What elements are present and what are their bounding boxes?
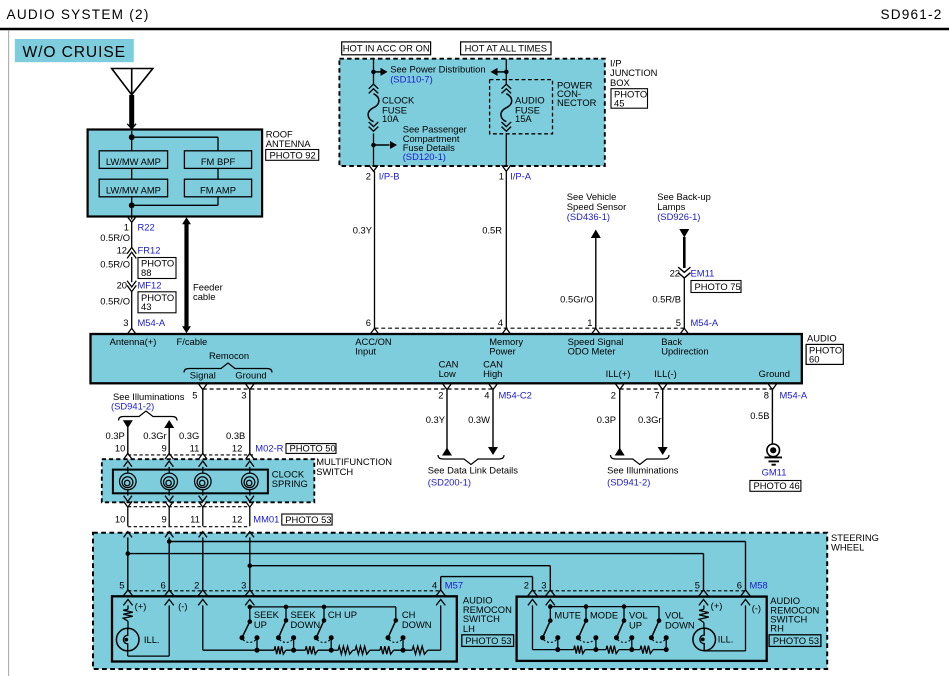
svg-text:0.5B: 0.5B — [750, 410, 769, 421]
svg-text:43: 43 — [141, 301, 151, 312]
label See Data Link Details — [428, 464, 518, 487]
svg-text:AUDIO SYSTEM (2): AUDIO SYSTEM (2) — [7, 7, 150, 22]
arrow to power distribution (left) — [374, 68, 388, 76]
roof antenna unit box — [88, 130, 263, 217]
svg-text:R22: R22 — [138, 222, 155, 233]
svg-text:LW/MW AMP: LW/MW AMP — [106, 184, 161, 195]
svg-text:PHOTO 92: PHOTO 92 — [270, 149, 316, 160]
clock spring coil 3 — [195, 473, 212, 490]
svg-text:RH: RH — [770, 622, 784, 633]
svg-text:ANTENNA: ANTENNA — [266, 138, 312, 149]
wire 0.5R/B to audio pin 5 — [652, 278, 684, 328]
switch MODE — [576, 604, 599, 652]
switch SEEK DOWN — [276, 605, 296, 653]
FM BPF block — [184, 151, 251, 169]
resistor RH illumination — [699, 605, 709, 622]
wire LH pin 2 to resistor rail — [203, 605, 257, 650]
svg-text:10: 10 — [115, 443, 125, 454]
svg-text:7: 7 — [654, 390, 659, 401]
connector M02-R dashed — [128, 454, 253, 456]
resistor chain LH 1 — [257, 646, 286, 654]
wire ILL- into wheel — [168, 537, 170, 589]
wire through clock spring 1 — [124, 461, 132, 507]
wire LH pin 4 riser — [440, 605, 442, 650]
PHOTO 46 box — [750, 480, 801, 491]
svg-text:M58: M58 — [750, 580, 768, 591]
label CAN High — [483, 358, 503, 379]
label See Vehicle Speed Sensor — [567, 191, 626, 222]
brace illuminations (right) — [611, 455, 670, 465]
label (+) LH — [135, 600, 147, 611]
wire bulb RH to (-) — [704, 649, 745, 652]
svg-text:LH: LH — [463, 623, 475, 634]
label Feeder cable — [193, 281, 223, 302]
switch VOL DOWN — [649, 607, 669, 653]
feeder cable — [182, 217, 191, 333]
wire LW/MW amp chain — [132, 168, 218, 179]
audio pin 5 (signal) — [192, 383, 207, 400]
svg-text:0.3Y: 0.3Y — [426, 414, 446, 425]
steering entry chevron 4 — [246, 532, 254, 538]
label Signal — [190, 370, 216, 381]
svg-text:0.5R: 0.5R — [482, 224, 502, 235]
label VOL DOWN — [665, 610, 695, 631]
svg-text:8: 8 — [764, 390, 769, 401]
svg-text:3: 3 — [123, 317, 128, 328]
wire through clock spring 2 — [165, 461, 173, 507]
left trim line — [8, 30, 10, 676]
arrow to power distribution (right) — [491, 68, 507, 76]
connector MM01 dashed top — [128, 506, 250, 508]
svg-text:(SD436-1): (SD436-1) — [567, 211, 610, 222]
steering wheel box — [93, 533, 827, 669]
label (+) RH — [711, 600, 723, 611]
svg-text:M57: M57 — [445, 580, 463, 591]
wire amp outputs to junction — [132, 197, 218, 217]
M02-R pin 10 — [115, 443, 132, 459]
node: power distribution junction (left) — [371, 70, 376, 75]
LH pin 4 — [432, 580, 445, 606]
LW/MW AMP block (upper) — [99, 151, 167, 169]
wire RH pin 3 to switch rail — [549, 605, 551, 606]
svg-text:M02-R: M02-R — [255, 443, 283, 454]
label F/cable — [177, 336, 208, 347]
svg-text:0.5R/O: 0.5R/O — [100, 232, 130, 243]
svg-text:UP: UP — [254, 619, 267, 630]
audio pin 2 (CAN low) — [438, 383, 451, 400]
brace illuminations (left) — [119, 411, 178, 421]
svg-text:See Data Link Details: See Data Link Details — [428, 464, 518, 475]
M02-R pin 11 — [190, 443, 207, 459]
label Remocon + brace — [184, 350, 272, 373]
label M58 — [750, 580, 768, 591]
fuse AUDIO FUSE 15A — [501, 84, 512, 131]
svg-text:6: 6 — [160, 580, 165, 591]
switch CH UP — [314, 605, 334, 653]
svg-text:DOWN: DOWN — [665, 619, 695, 630]
wire LH pin 6 down — [168, 605, 170, 656]
svg-text:Updirection: Updirection — [661, 346, 708, 357]
audio pin 3 M54-A — [123, 317, 166, 335]
LH pin 2 — [194, 580, 207, 606]
label MULTIFUNCTION SWITCH — [316, 456, 392, 477]
wire 0.5R/O (2) — [100, 257, 131, 282]
wire RH pin 2 to resistor rail — [533, 605, 558, 649]
connector pin 1 I/P-A — [499, 165, 532, 181]
wire bulb LH to (-) — [128, 650, 170, 656]
svg-text:SD961-2: SD961-2 — [880, 7, 942, 22]
label Antenna(+) — [110, 336, 157, 347]
svg-text:M54-A: M54-A — [691, 317, 719, 328]
clock spring box — [113, 470, 268, 494]
antenna symbol — [112, 69, 153, 96]
svg-text:MM01: MM01 — [253, 514, 279, 525]
label MODE — [590, 610, 618, 621]
svg-text:PHOTO 50: PHOTO 50 — [290, 443, 336, 454]
PHOTO 53 box (RH) — [769, 635, 821, 647]
svg-text:HOT IN ACC OR ON: HOT IN ACC OR ON — [343, 43, 430, 54]
MM01 pin 11 — [190, 507, 203, 526]
svg-text:LW/MW AMP: LW/MW AMP — [106, 156, 161, 167]
label Speed Signal ODO Meter — [568, 336, 624, 356]
svg-text:0.3Y: 0.3Y — [353, 224, 373, 235]
PHOTO 50 box — [286, 443, 336, 454]
wire antenna junction to FM branch — [132, 131, 218, 151]
steering entry chevron 3 — [199, 532, 207, 538]
PHOTO 53 box (LH) — [462, 635, 514, 647]
wire ground to RH pin 3 — [250, 566, 551, 590]
label CH DOWN — [402, 609, 432, 630]
resistor chain LH 3 — [318, 646, 353, 654]
svg-text:(SD110-7): (SD110-7) — [390, 74, 433, 85]
label (-) RH — [752, 602, 761, 613]
svg-text:Signal: Signal — [190, 370, 216, 381]
wire 0.3B ground — [226, 390, 250, 454]
svg-text:ILL.: ILL. — [144, 634, 160, 645]
svg-text:4: 4 — [484, 390, 489, 401]
clock spring coil 2 — [161, 473, 178, 490]
PHOTO 60 box — [806, 344, 843, 364]
wire ILL+ to RH pin 5 — [128, 554, 704, 590]
label AUDIO FUSE 15A — [515, 95, 545, 125]
svg-text:60: 60 — [809, 354, 819, 365]
switch MUTE — [540, 604, 560, 652]
svg-text:Remocon: Remocon — [209, 350, 249, 361]
bulb ILL LH — [116, 621, 159, 651]
svg-text:11: 11 — [190, 514, 200, 525]
svg-text:M54-A: M54-A — [138, 317, 166, 328]
wire through clock spring 4 — [246, 461, 254, 507]
MM01 pin 10 — [115, 507, 128, 526]
connector M58 dashed — [533, 590, 746, 592]
svg-text:MODE: MODE — [590, 610, 618, 621]
svg-text:(-): (-) — [752, 602, 761, 613]
label See Passenger Compartment Fuse Details — [403, 123, 467, 162]
PHOTO 45 box — [611, 88, 648, 108]
label See Illuminations (left) — [111, 391, 185, 412]
svg-text:SPRING: SPRING — [272, 478, 308, 489]
label STEERING WHEEL — [831, 532, 879, 553]
svg-text:(SD941-2): (SD941-2) — [607, 477, 650, 488]
wire 0.3P (left) — [106, 420, 133, 453]
svg-text:GM11: GM11 — [762, 467, 787, 478]
LH switch rail — [250, 606, 396, 608]
label Back Updirection — [661, 336, 708, 356]
wire 0.5R to audio pin 4 — [482, 171, 506, 328]
svg-text:9: 9 — [161, 443, 166, 454]
svg-text:0.3P: 0.3P — [106, 430, 125, 441]
connector MM01 dashed bottom — [128, 526, 250, 528]
svg-text:Low: Low — [439, 368, 456, 379]
label GM11 — [762, 467, 787, 478]
label VOL UP — [629, 610, 648, 631]
FM AMP block — [184, 179, 251, 197]
connector MF12 pin 20 — [117, 279, 162, 291]
svg-text:(+): (+) — [135, 600, 147, 611]
svg-text:CH UP: CH UP — [328, 609, 357, 620]
resistor LH illumination — [123, 605, 133, 621]
svg-text:20: 20 — [117, 279, 127, 290]
LH pin 6 — [160, 580, 173, 606]
svg-text:I/P-B: I/P-B — [379, 170, 400, 181]
label CLOCK SPRING — [272, 469, 308, 490]
node: power distribution junction (right) — [504, 70, 509, 75]
svg-text:NECTOR: NECTOR — [557, 97, 597, 108]
svg-text:0.5R/B: 0.5R/B — [652, 293, 681, 304]
ground GM11 — [765, 444, 783, 465]
connector M57 dashed — [128, 590, 441, 592]
svg-text:5: 5 — [192, 390, 197, 401]
resistor chain RH 1 — [558, 646, 585, 654]
switch SEEK UP — [240, 605, 260, 653]
svg-text:22: 22 — [670, 267, 680, 278]
power connector box — [490, 80, 553, 134]
audio pin 5 M54-A — [676, 317, 719, 335]
tag HOT IN ACC OR ON — [342, 42, 431, 55]
RH pin 5 — [695, 580, 708, 606]
label Memory Power — [489, 336, 523, 356]
arrow to passenger compartment fuse details — [374, 141, 398, 149]
tag HOT AT ALL TIMES — [461, 42, 551, 55]
wire ILL- to RH pin 6 — [169, 542, 745, 590]
wire signal into wheel — [202, 537, 204, 589]
label M57 — [445, 580, 463, 591]
resistor chain LH 5 — [370, 646, 394, 654]
steering entry chevron 1 — [124, 532, 132, 538]
svg-text:0.5Gr/O: 0.5Gr/O — [560, 293, 593, 304]
svg-text:(SD926-1): (SD926-1) — [657, 211, 700, 222]
label (-) LH — [178, 600, 187, 611]
PHOTO 92 box — [266, 149, 319, 160]
resistor chain LH 6 — [394, 646, 441, 654]
connector dashed line bottom left — [203, 388, 493, 390]
RH pin 3 — [541, 580, 555, 606]
connector pin 2 I/P-B — [366, 165, 400, 181]
svg-text:(+): (+) — [711, 600, 723, 611]
svg-text:5: 5 — [119, 580, 124, 591]
svg-text:6: 6 — [366, 317, 371, 328]
svg-text:10A: 10A — [382, 113, 399, 124]
label CH UP — [328, 609, 357, 620]
svg-text:10: 10 — [115, 514, 125, 525]
resistor chain LH 4 — [353, 646, 370, 654]
svg-text:ODO Meter: ODO Meter — [568, 346, 616, 357]
svg-text:45: 45 — [614, 98, 624, 109]
svg-text:9: 9 — [161, 514, 166, 525]
audio pin 1 — [587, 317, 600, 335]
wire RH pin 6 down — [745, 605, 747, 651]
RH pin 2 — [524, 580, 537, 606]
wire 0.5R/O (3) — [100, 292, 131, 329]
label M02-R — [255, 443, 283, 454]
label AUDIO REMOCON SWITCH LH — [463, 594, 512, 634]
LH pin 3 — [241, 580, 254, 606]
header rule — [0, 28, 949, 30]
connector FR12 pin 12 — [117, 244, 161, 258]
svg-text:High: High — [483, 368, 502, 379]
wire clock-fuse feed — [373, 59, 375, 84]
svg-text:2: 2 — [366, 170, 371, 181]
label MUTE — [554, 610, 581, 621]
label See Back-up Lamps — [657, 191, 711, 222]
PHOTO 43 box — [138, 292, 176, 313]
svg-text:BOX: BOX — [610, 77, 631, 88]
svg-text:M54-A: M54-A — [780, 390, 808, 401]
wire 0.5B ground — [750, 390, 772, 445]
svg-text:(SD200-1): (SD200-1) — [428, 477, 471, 488]
svg-text:FM BPF: FM BPF — [201, 156, 236, 167]
clock spring coil 1 — [120, 473, 137, 490]
I/P junction box — [339, 59, 604, 166]
svg-text:4: 4 — [498, 317, 503, 328]
svg-text:PHOTO 53: PHOTO 53 — [773, 635, 819, 646]
svg-text:3: 3 — [241, 580, 246, 591]
connector M54-A dashed line (top) — [375, 327, 685, 329]
M02-R pin 12 — [232, 443, 254, 459]
svg-text:cable: cable — [193, 291, 215, 302]
wire 0.3Gr (left) — [143, 420, 174, 453]
node: passenger fuse junction — [371, 133, 376, 166]
svg-text:MUTE: MUTE — [554, 610, 581, 621]
connector dashed line bottom right — [620, 388, 773, 390]
svg-text:W/O CRUISE: W/O CRUISE — [23, 44, 126, 61]
node: ILL+ branch — [126, 551, 131, 556]
wire 0.3W CAN high — [468, 390, 498, 455]
svg-text:1: 1 — [587, 317, 592, 328]
svg-text:4: 4 — [432, 580, 437, 591]
svg-text:See Illuminations: See Illuminations — [607, 464, 679, 475]
audio pin 7 (ILL-) — [654, 383, 667, 400]
label AUDIO — [807, 333, 837, 344]
svg-text:2: 2 — [611, 390, 616, 401]
label MM01 — [253, 514, 279, 525]
svg-text:0.3B: 0.3B — [226, 430, 245, 441]
switch CH DOWN — [386, 607, 406, 653]
wire rail corner CH DOWN — [395, 606, 397, 608]
page title — [7, 7, 150, 22]
label CAN Low — [439, 358, 459, 379]
node: antenna input junction — [129, 134, 135, 140]
svg-text:Ground: Ground — [759, 368, 790, 379]
svg-text:ILL.: ILL. — [718, 634, 734, 645]
wire LH pin 4 to RH pin 2 — [441, 577, 533, 590]
label I/P JUNCTION BOX — [610, 58, 657, 88]
RH switch rail — [550, 606, 659, 608]
connector R22 pin 1 — [124, 217, 155, 233]
svg-text:6: 6 — [737, 580, 742, 591]
svg-text:3: 3 — [541, 580, 546, 591]
fuse CLOCK FUSE 10A — [368, 84, 379, 131]
svg-text:0.5R/O: 0.5R/O — [100, 259, 130, 270]
svg-text:DOWN: DOWN — [291, 619, 321, 630]
LW/MW AMP block (lower) — [99, 179, 167, 197]
wire 0.3Gr ILL- — [638, 390, 668, 455]
audio pin 2 (ILL+) — [611, 383, 625, 400]
page number SD961-2 — [880, 7, 942, 22]
svg-text:Input: Input — [355, 346, 376, 357]
AUDIO unit box — [91, 334, 802, 383]
label SEEK UP — [254, 609, 280, 630]
audio pin 6 — [366, 317, 379, 335]
svg-text:FR12: FR12 — [138, 244, 161, 255]
label See Illuminations (right) — [607, 464, 679, 487]
wire 0.3G signal — [179, 390, 203, 454]
svg-text:0.3Gr: 0.3Gr — [638, 414, 661, 425]
wire 0.3Y to audio pin 6 — [353, 171, 375, 328]
antenna mast lead — [127, 95, 136, 131]
label Ground (power) — [759, 368, 790, 379]
label SEEK DOWN — [291, 609, 321, 630]
svg-text:HOT AT ALL TIMES: HOT AT ALL TIMES — [465, 43, 547, 54]
bulb ILL RH — [693, 623, 734, 651]
wire ground into wheel — [249, 537, 251, 589]
LH switch box — [112, 596, 457, 661]
svg-text:ILL(-): ILL(-) — [654, 368, 676, 379]
MM01 pin 9 — [161, 507, 169, 526]
label ILL(-) — [654, 368, 676, 379]
brace data link — [438, 455, 504, 465]
wire to back-up lamps — [679, 229, 689, 268]
svg-text:AUDIO: AUDIO — [807, 333, 837, 344]
RH switch box — [517, 597, 767, 661]
audio pin 4 — [498, 317, 511, 335]
M02-R pin 9 — [161, 443, 173, 459]
audio pin 8 M54-A (ground) — [764, 383, 808, 400]
multifunction switch box — [102, 459, 314, 502]
wire LH pin 3 to switch rail — [249, 605, 251, 607]
svg-text:FM AMP: FM AMP — [200, 184, 236, 195]
svg-text:EM11: EM11 — [691, 267, 715, 278]
svg-text:88: 88 — [141, 267, 151, 278]
svg-text:Ground: Ground — [235, 370, 266, 381]
wire through clock spring 3 — [199, 461, 207, 507]
svg-text:0.3P: 0.3P — [597, 414, 616, 425]
svg-text:UP: UP — [629, 619, 642, 630]
PHOTO 53 box (MM01) — [282, 514, 332, 525]
wire 0.3Y CAN low — [426, 390, 452, 456]
label POWER CONNECTOR — [557, 80, 597, 108]
resistor chain RH 2 — [585, 646, 619, 654]
LH pin 5 — [119, 580, 132, 606]
svg-text:0.5R/O: 0.5R/O — [100, 295, 130, 306]
node: ground branch — [248, 563, 253, 568]
audio pin 4 M54-C2 (CAN high) — [484, 383, 532, 400]
svg-text:2: 2 — [438, 390, 443, 401]
svg-text:5: 5 — [676, 317, 681, 328]
svg-text:2: 2 — [524, 580, 529, 591]
svg-text:(SD120-1): (SD120-1) — [403, 151, 446, 162]
PHOTO 88 box — [138, 258, 176, 279]
